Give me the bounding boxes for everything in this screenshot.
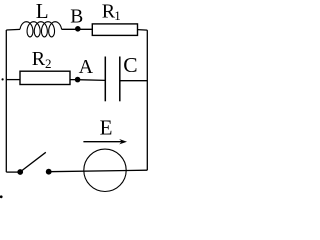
svg-text:C: C	[123, 53, 137, 77]
svg-text:E: E	[100, 116, 113, 140]
svg-text:2: 2	[45, 56, 52, 71]
svg-text:B: B	[70, 7, 83, 28]
svg-text:1: 1	[114, 8, 121, 23]
svg-text:L: L	[36, 0, 49, 23]
svg-text:A: A	[79, 56, 94, 78]
svg-text:R: R	[32, 48, 46, 70]
